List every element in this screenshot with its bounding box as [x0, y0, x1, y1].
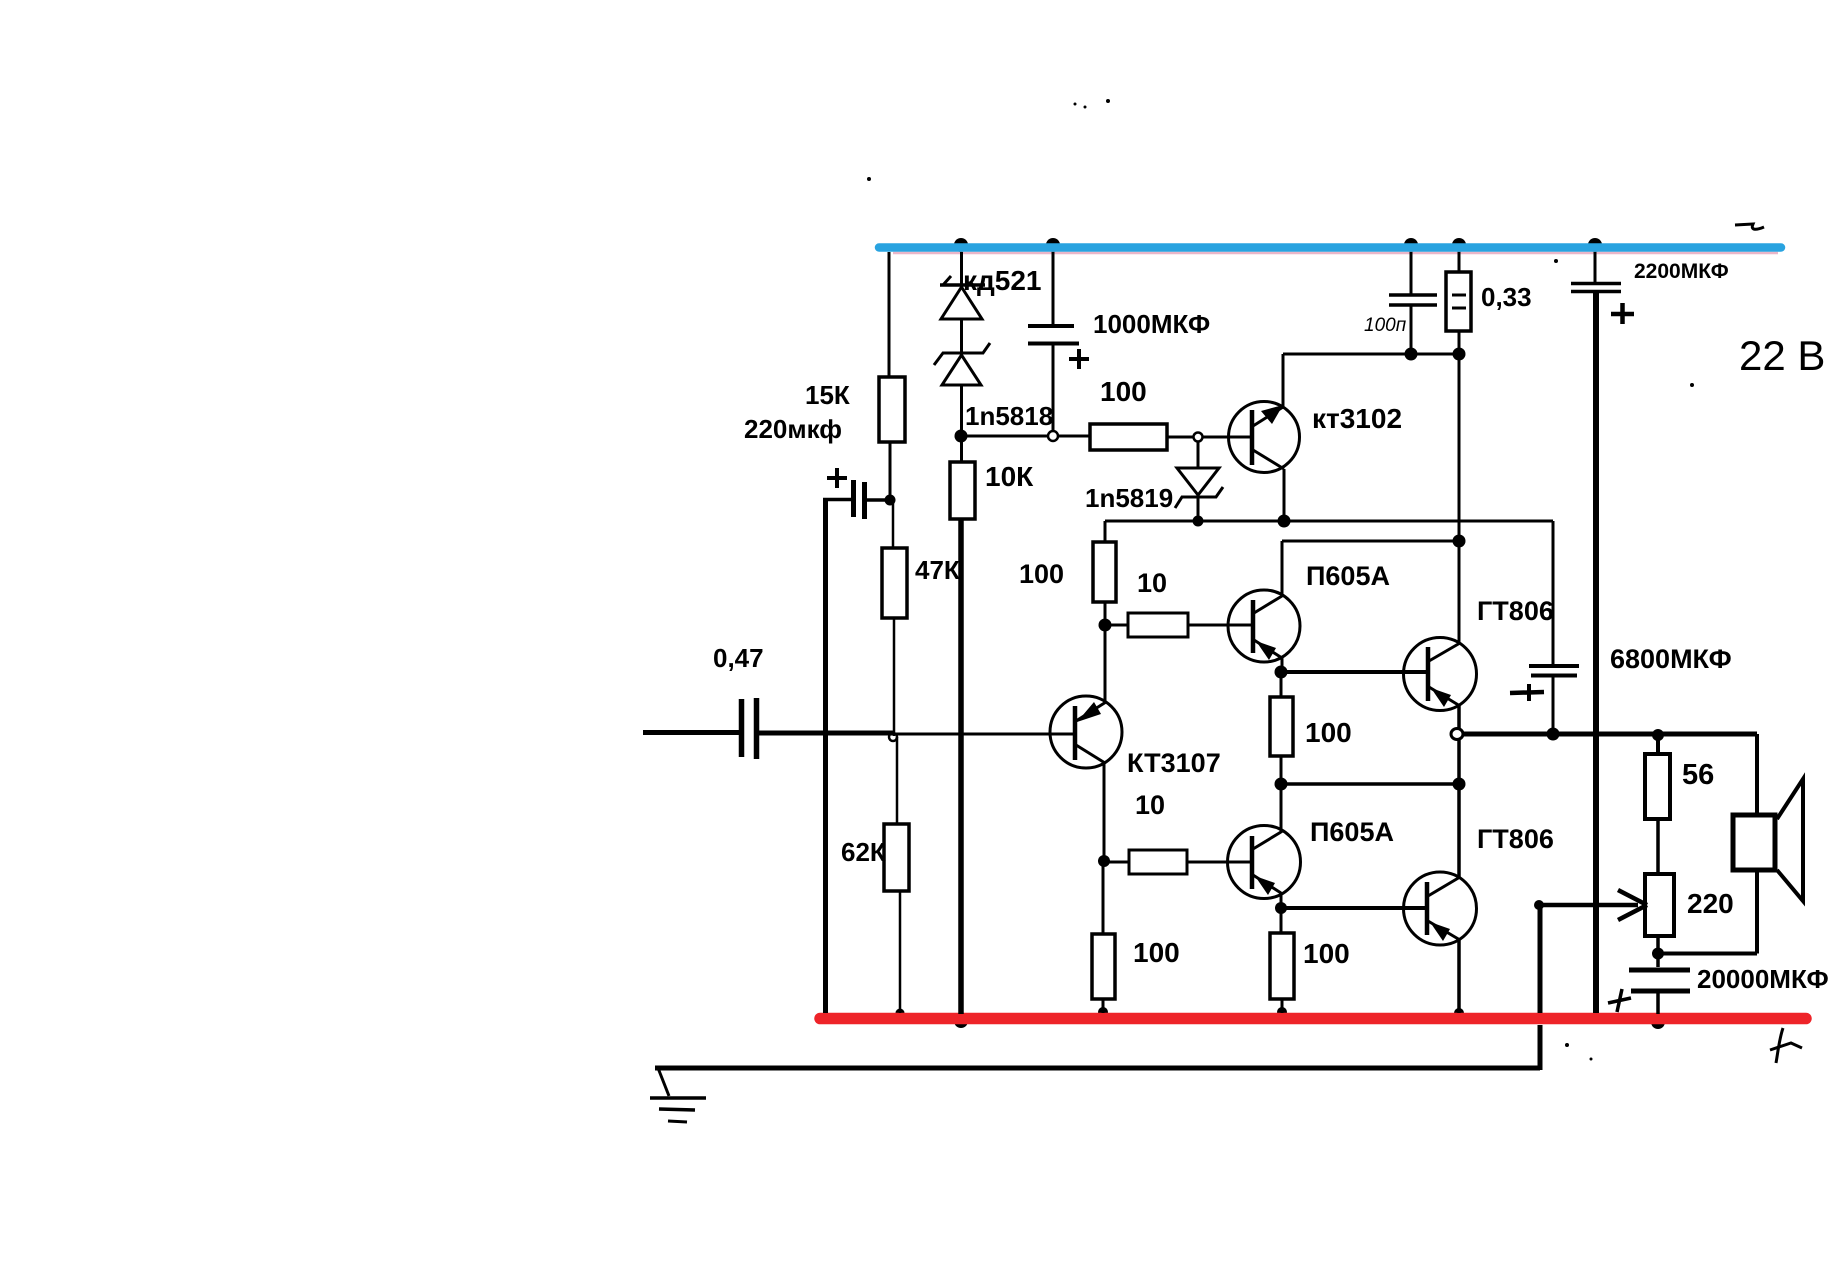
wire vertical bus middle [1457, 705, 1461, 878]
open node at 1000МКФ junction [1048, 431, 1058, 441]
wire 220мкф left lead [823, 498, 851, 502]
svg-text:кт3102: кт3102 [1312, 403, 1402, 434]
resistor 47К [882, 548, 907, 618]
svg-text:П605А: П605А [1306, 561, 1390, 591]
wire 100 to -rail [1102, 999, 1105, 1013]
wire 62К to -rail [899, 891, 902, 1013]
capacitor 2200МКФ [1571, 282, 1621, 286]
svg-text:1000МКФ: 1000МКФ [1093, 309, 1210, 339]
ground wire bottom left [655, 1066, 1540, 1071]
diode кд521 cathode bar [940, 283, 985, 287]
svg-text:2200МКФ: 2200МКФ [1634, 260, 1729, 283]
svg-text:ГТ806: ГТ806 [1477, 596, 1554, 626]
zener diode triangle [942, 355, 981, 385]
wire input line after 0,47 [759, 731, 894, 736]
diode кд521 triangle [941, 287, 982, 319]
svg-text:1n5818: 1n5818 [965, 401, 1053, 431]
handwritten x mark bottom right [1776, 1028, 1783, 1063]
node on -rail at left 100 resistor [1098, 1007, 1108, 1017]
svg-text:220мкф: 220мкф [744, 414, 842, 444]
capacitor 6800МКФ plus sign [1510, 692, 1544, 693]
wire +rail to кд521 [960, 252, 963, 286]
wire node B to 10К [960, 436, 963, 462]
wire +rail to 1000МКФ [1052, 252, 1055, 326]
wire vertical bus lower (ГТ806-2 emitter to -rail) [1457, 939, 1461, 1013]
wire output to 56 [1656, 735, 1660, 754]
svg-text:47К: 47К [915, 555, 960, 585]
wire П605А emitter down [1281, 657, 1284, 672]
wire 220 to node [1656, 936, 1660, 967]
wire node D to 10 [1105, 624, 1128, 627]
resistor 56 [1645, 754, 1670, 819]
svg-text:100: 100 [1019, 559, 1064, 589]
wire node A to 47К [892, 500, 895, 548]
wire thick 10К to -rail [958, 519, 964, 1014]
wire 6800МКФ top lead from line C [1552, 521, 1555, 666]
wire КТ3107 collector down [1103, 763, 1106, 861]
node feedback tap [1534, 900, 1544, 910]
wire node H down to 100 [1280, 908, 1283, 933]
svg-text:кд521: кд521 [963, 265, 1042, 296]
resistor 10К [950, 462, 975, 519]
svg-text:220: 220 [1687, 888, 1734, 919]
svg-text:10: 10 [1137, 568, 1167, 598]
resistor 10 (lower) [1129, 850, 1187, 874]
wire node to speaker return [1658, 952, 1757, 956]
diamond node at output left end [1451, 729, 1463, 740]
svg-text:100: 100 [1100, 376, 1147, 407]
tilde mark above +rail [1735, 224, 1764, 229]
wire П605А-2 collector up to node G [1280, 784, 1283, 833]
wire П605А-2 emitter down [1280, 892, 1283, 908]
node on +rail at 0,33 branch [1452, 238, 1466, 252]
capacitor 20000МКФ plus sign [1608, 998, 1631, 1003]
node 1n5819 to rail C [1193, 516, 1204, 527]
node on -rail at middle 100 resistor [1277, 1007, 1287, 1017]
svg-text:100: 100 [1305, 717, 1352, 748]
wire 47К to input node [893, 618, 896, 736]
resistor 100 (bottom middle) [1270, 933, 1294, 999]
node B (кд521/10К/100 junction) [955, 430, 968, 443]
node on vertical bus at 784 [1453, 778, 1466, 791]
svg-text:100: 100 [1303, 938, 1350, 969]
speaker [1733, 815, 1775, 870]
wire from +rail to 15К [888, 252, 891, 377]
node on -rail at ГТ806 emitter [1454, 1008, 1464, 1018]
open node at кт3102 base feed [1194, 433, 1203, 442]
node H (П605А-2 emitter) [1275, 902, 1287, 914]
wire кт3102 collector horizontal to 0,33 [1283, 353, 1459, 356]
wire node F to ГТ806 base [1281, 670, 1429, 674]
wire line C horizontal (1n5819 to 6800МКФ) [1105, 520, 1553, 523]
capacitor 1000МКФ [1028, 324, 1074, 328]
wire 100п to node [1410, 305, 1413, 354]
svg-text:КТ3107: КТ3107 [1127, 748, 1221, 778]
svg-text:20000МКФ: 20000МКФ [1697, 964, 1829, 994]
positive supply rail (blue) [893, 252, 1778, 255]
transistor кт3102 [1229, 402, 1300, 473]
node on +rail at 2200МКФ branch [1588, 238, 1602, 252]
wire 1000МКФ to open node [1052, 343, 1055, 436]
wire 220мкф right lead [867, 498, 890, 502]
resistor 15К [879, 377, 905, 442]
transistor ГТ806 (lower) [1404, 872, 1477, 945]
node E (КТ3107 collector junction) [1098, 855, 1110, 867]
zener diode bar with hooks [934, 343, 990, 365]
potentiometer 220 [1645, 874, 1674, 936]
output line (thick horizontal) [1463, 732, 1757, 737]
svg-text:0,33: 0,33 [1481, 282, 1532, 312]
wire 100 to кт3102 base [1167, 436, 1252, 439]
transistor КТ3107 [1050, 696, 1122, 768]
svg-text:100п: 100п [1364, 315, 1407, 336]
wire node B to resistor 100 [961, 435, 1090, 438]
wire П605А collector up [1281, 541, 1284, 597]
wire feedback down [1538, 905, 1543, 1013]
transistor П605А (lower) [1228, 826, 1301, 899]
node on +rail at 100п branch [1404, 238, 1418, 252]
node on +rail at кд521 branch [954, 238, 968, 252]
wire 6800МКФ to output node [1552, 676, 1555, 734]
node output/6800МКФ [1547, 728, 1560, 741]
wire node E down to 100 [1102, 861, 1105, 934]
wire 100 to -rail [1281, 999, 1284, 1013]
negative supply rail (red) [820, 1013, 1806, 1025]
wire output to speaker [1755, 734, 1759, 815]
input node open loop [889, 733, 897, 741]
node G [1275, 778, 1288, 791]
wire +rail to 100п [1410, 252, 1413, 295]
transistor П605А (upper) [1228, 590, 1300, 662]
ink specks top [1074, 103, 1077, 106]
capacitor 6800МКФ [1529, 664, 1579, 668]
wire 100 to node G [1280, 756, 1283, 784]
node on -rail at 10К branch [954, 1014, 968, 1028]
diode 1n5819 [1197, 441, 1200, 468]
potentiometer wiper arrow [1539, 903, 1638, 908]
node on +rail at 1000МКФ branch [1046, 238, 1060, 252]
capacitor 20000МКФ [1629, 968, 1690, 973]
resistor 10 (upper) [1128, 613, 1188, 637]
wire 10 to П605А-2 base [1187, 861, 1252, 864]
ground symbol [658, 1068, 669, 1096]
node output/56 [1652, 729, 1664, 741]
svg-text:10: 10 [1135, 790, 1165, 820]
wire zener to node B [960, 385, 963, 436]
svg-text:6800МКФ: 6800МКФ [1610, 644, 1732, 674]
wire П605А collector horizontal to vertical bus [1282, 540, 1459, 543]
svg-text:56: 56 [1682, 759, 1714, 791]
svg-text:П605А: П605А [1310, 817, 1394, 847]
node F (П605А emitter) [1275, 666, 1288, 679]
wire кд521 to zener [960, 319, 963, 353]
node A (15К/220мкф/47К junction) [885, 495, 896, 506]
capacitor 0,47 [739, 699, 745, 757]
svg-text:10К: 10К [985, 461, 1034, 492]
resistor 100 (left vertical) [1093, 542, 1116, 602]
resistor 62К [884, 824, 909, 891]
node 100п junction [1405, 348, 1418, 361]
node on -rail at 62К branch [896, 1009, 905, 1018]
node D (КТ3107 emitter junction) [1099, 619, 1112, 632]
svg-text:22 В: 22 В [1739, 332, 1825, 379]
wire +rail to 2200МКФ [1594, 252, 1597, 283]
wire 10 to П605А base [1188, 624, 1253, 627]
wire input line left segment [643, 730, 740, 735]
wire 0,33 to node [1458, 331, 1461, 354]
wire 100 to node D [1104, 602, 1107, 625]
resistor 100 (base feed, horizontal) [1090, 424, 1167, 450]
wire vertical bus upper (0,33 node to ГТ806 collector) [1458, 354, 1461, 644]
wire кт3102 collector up [1282, 354, 1285, 408]
transistor ГТ806 (upper) [1404, 638, 1477, 711]
node on vertical bus at 541 [1453, 535, 1466, 548]
capacitor 2200МКФ plus sign [1611, 312, 1634, 317]
wire base lead КТ3107 [894, 733, 1076, 736]
svg-text:ГТ806: ГТ806 [1477, 824, 1554, 854]
svg-text:100: 100 [1133, 937, 1180, 968]
wire node F down to 100 [1280, 672, 1283, 697]
svg-text:15К: 15К [805, 380, 850, 410]
capacitor 220мкф [851, 480, 856, 517]
wire input node to 62К [896, 737, 899, 824]
wire thick ground drop from 220мкф [823, 498, 828, 1013]
svg-text:0,47: 0,47 [713, 643, 764, 673]
wire 20000МКФ to -rail [1656, 991, 1660, 1014]
wire +rail to 0,33 [1458, 252, 1461, 272]
svg-text:1n5819: 1n5819 [1085, 483, 1173, 513]
capacitor 100п [1389, 293, 1437, 297]
node below 220 [1652, 948, 1664, 960]
node on -rail at 20000МКФ [1651, 1015, 1665, 1029]
node кт3102 emitter on line C [1278, 515, 1291, 528]
node 0,33 junction [1453, 348, 1466, 361]
wire кт3102 emitter down [1283, 469, 1286, 521]
wire 15К to node A [889, 442, 892, 500]
resistor 0,33 [1446, 272, 1471, 331]
wire node H to ГТ806-2 base [1281, 906, 1428, 910]
wire node G to vertical bus [1281, 782, 1463, 786]
capacitor 220мкф plus sign [827, 476, 847, 480]
wire КТ3107 emitter up to node D [1104, 625, 1107, 703]
wire line C left drop to 100 [1104, 521, 1107, 542]
wire thick 2200МКФ to -rail [1593, 292, 1599, 1013]
resistor 100 (bottom left) [1092, 934, 1115, 999]
capacitor 1000МКФ plus sign [1069, 357, 1089, 361]
wire node E to lower 10 [1104, 861, 1129, 864]
svg-text:62К: 62К [841, 837, 886, 867]
resistor 100 (middle) [1270, 697, 1293, 756]
wire 56 to 220 [1656, 819, 1660, 874]
